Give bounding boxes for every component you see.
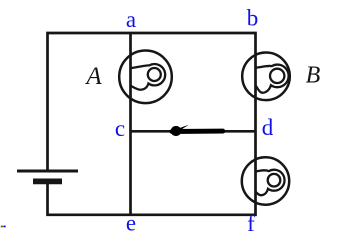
lamp on d-f branch: [242, 157, 289, 204]
svg-text:a: a: [126, 7, 136, 32]
pen blob junction dot: [171, 126, 182, 136]
svg-text:d: d: [262, 115, 274, 140]
battery long positive plate: [17, 170, 78, 173]
battery short negative plate: [33, 179, 62, 185]
svg-text:c: c: [115, 116, 125, 141]
wire vertical a-c-e through lamp A: [129, 33, 132, 215]
pen flick arrow tick: [175, 125, 189, 131]
lamp A: [119, 51, 172, 104]
thick added-wire stroke on c-d: [172, 129, 223, 134]
svg-text:B: B: [306, 63, 321, 89]
wire outer loop: left vertical, top wire a-b, right vertical b-f, bottom wire e-f: [48, 33, 256, 215]
svg-text:f: f: [247, 211, 255, 236]
svg-text:b: b: [247, 6, 259, 31]
wire c-d: [131, 130, 256, 133]
svg-text:e: e: [126, 211, 136, 236]
lamp B: [242, 53, 290, 101]
scan artifact dots bottom-left: [1, 226, 3, 228]
svg-text:A: A: [84, 63, 102, 90]
